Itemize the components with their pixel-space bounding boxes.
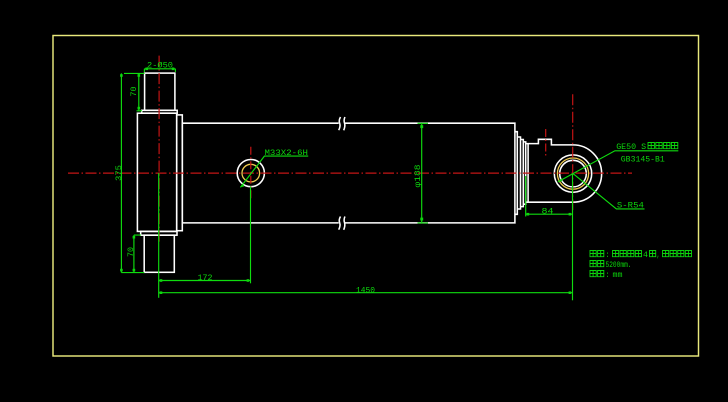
bottom trunnion pin — [144, 235, 174, 272]
drawing frame — [53, 36, 699, 357]
note text line 3 — [590, 271, 604, 277]
svg-text:S-R54: S-R54 — [617, 200, 644, 210]
dimension 2-Ø50 — [144, 68, 175, 73]
dimension 375 — [120, 73, 144, 272]
bearing outer ring yellow — [557, 158, 588, 189]
eye centerline — [572, 94, 574, 210]
leader GE50 bearing — [558, 151, 679, 182]
extension line eye axis — [572, 174, 574, 301]
svg-text:70: 70 — [126, 247, 136, 257]
svg-text:GE50 S: GE50 S — [616, 142, 646, 152]
svg-text:mm: mm — [613, 270, 623, 280]
bearing bore circle — [560, 160, 587, 187]
stage 1 — [515, 132, 517, 215]
barrel end plate — [177, 115, 183, 231]
top trunnion pin — [145, 73, 175, 110]
svg-text::: : — [606, 270, 610, 280]
note text line 1 — [590, 251, 604, 257]
svg-text:φ188: φ188 — [413, 165, 423, 188]
port centerline — [250, 147, 252, 199]
leader S-R54 — [573, 174, 645, 209]
trunnion axis centerline — [158, 56, 160, 242]
dimension 84 — [526, 176, 573, 217]
svg-text:5200mm.: 5200mm. — [606, 260, 632, 270]
label GE50 CJK glyphs — [648, 143, 678, 149]
svg-text:2-Ø50: 2-Ø50 — [147, 61, 173, 71]
svg-text:GB3145-B1: GB3145-B1 — [621, 154, 665, 164]
thread circle yellow — [242, 164, 260, 182]
svg-text:84: 84 — [542, 207, 554, 217]
extension line port axis — [250, 187, 252, 284]
top trunnion collar — [142, 110, 178, 113]
dimension 172 — [159, 279, 251, 282]
svg-text::: : — [606, 250, 610, 260]
stage 4 — [523, 142, 525, 204]
svg-text:4: 4 — [643, 250, 648, 260]
main axis centerline — [68, 172, 632, 174]
rod eye boss circle — [554, 155, 591, 192]
grease port centerline — [545, 129, 547, 158]
extension line trunnion axis — [158, 173, 160, 298]
rod eye body with grease stub — [526, 139, 602, 202]
dimension phi188 — [418, 123, 429, 223]
svg-text:,: , — [657, 250, 660, 260]
stage 2 — [517, 137, 520, 209]
dimension 1450 — [159, 291, 573, 294]
svg-text:375: 375 — [114, 165, 124, 181]
dimension 70 bottom — [133, 235, 141, 273]
svg-text:172: 172 — [198, 273, 213, 283]
cylinder barrel — [182, 123, 515, 223]
note text line 2 — [590, 261, 604, 267]
bottom trunnion collar — [141, 231, 177, 235]
pipe break top — [339, 117, 345, 130]
port boss circle — [237, 160, 264, 187]
pipe break bottom — [339, 217, 345, 230]
leader M33X2-6H — [240, 156, 308, 187]
stage 3 — [521, 140, 524, 207]
mounting block — [137, 113, 176, 231]
svg-text:1450: 1450 — [356, 285, 375, 295]
svg-text:M33X2-6H: M33X2-6H — [265, 148, 309, 158]
svg-text:70: 70 — [129, 87, 139, 97]
dimension 70 top — [124, 73, 145, 110]
